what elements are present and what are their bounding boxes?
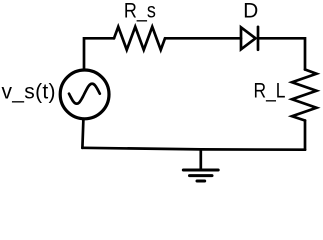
source v_s circle [60,70,109,119]
ground stub [199,149,202,170]
wire: source bottom stub [82,119,83,148]
wire: diode to top-right corner down to R_L [258,38,305,69]
wire: R_s to diode anode [165,37,241,40]
ground bar 1 [183,169,218,172]
svg-text:v_s(t): v_s(t) [2,81,56,104]
svg-text:R_L: R_L [254,80,286,103]
diode D triangle [241,27,256,49]
resistor R_s [114,27,165,50]
resistor R_L [292,70,317,121]
svg-text:R_s: R_s [124,0,156,23]
wire: left vertical + top-left corner to R_s [84,38,114,68]
source sine wave [69,84,100,104]
ground bar 3 [197,180,205,183]
wire: bottom horizontal [82,148,305,150]
svg-text:D: D [243,0,258,22]
ground bar 2 [190,174,213,177]
diode D cathode bar [257,27,260,50]
wire: R_L to bottom-right corner [304,121,307,150]
